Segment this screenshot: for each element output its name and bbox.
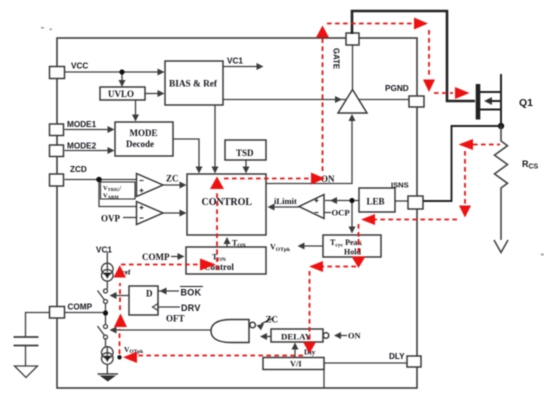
speck artifacts top left [41, 27, 544, 256]
block D flip-flop [129, 286, 158, 315]
op-amp OCP comparator [299, 195, 324, 219]
block Ton Control [186, 247, 266, 274]
wire DRV [158, 306, 180, 308]
wire MODE1 [65, 129, 110, 131]
red path to ISNS [375, 219, 457, 221]
pin DLY [407, 356, 421, 367]
svg-text:COMP: COMP [142, 252, 170, 262]
arrow MODE1 [108, 126, 115, 133]
red arrow left at Rcs [459, 139, 474, 150]
label minus OCP [315, 212, 319, 214]
wire capacitor to ground [25, 346, 27, 366]
wire DELAY to NAND [264, 336, 271, 338]
arrow LEB into OCP [330, 197, 337, 204]
red path to Q1 gate [434, 92, 453, 94]
switch S2 [104, 325, 108, 329]
wire ZCD [65, 179, 137, 181]
wire ON to DELAY bubble [341, 335, 347, 337]
arrow ON into driver base [349, 114, 356, 121]
svg-text:UVLO: UVLO [108, 89, 134, 99]
red arrow right into Q1 [455, 87, 470, 99]
wire OVP out [163, 212, 181, 214]
arrow DFF to S1 [110, 292, 117, 299]
arrow into BIAS uvlo [158, 90, 165, 97]
label minus ZC [140, 180, 144, 182]
red path left below Peak Hold [323, 266, 356, 268]
wire VC1 output [223, 66, 257, 68]
red arrow down below Peak Hold [352, 257, 366, 269]
red arrow left at ISNS path [361, 214, 375, 225]
wire thick GATE trace [352, 11, 475, 101]
wire BIAS to CONTROL [214, 105, 216, 168]
pin VCC [50, 67, 65, 79]
DFF clock wedge [153, 304, 159, 311]
arrow BIAS to CONTROL [212, 167, 219, 174]
red arrow right into Ton Control [200, 259, 216, 271]
block BIAS & Ref [165, 61, 223, 105]
arrow node into Peak Hold [349, 227, 356, 234]
arrow V/I to DELAY [292, 343, 299, 350]
arrow ON into DELAY [334, 332, 341, 339]
svg-text:MODE: MODE [130, 128, 158, 138]
red arrow down at Dly [303, 342, 316, 354]
wire COMP to Ton Control [171, 256, 180, 258]
svg-text:GATE: GATE [332, 48, 341, 69]
svg-text:D: D [146, 289, 153, 299]
pin MODE2 [50, 145, 64, 157]
wire BOK [158, 290, 179, 292]
svg-text:TON: TON [232, 239, 246, 249]
arrow VC1 [257, 63, 264, 70]
svg-text:CONTROL: CONTROL [202, 197, 253, 208]
svg-text:MODE2: MODE2 [67, 142, 97, 151]
arrow ZC into CONTROL [180, 182, 187, 189]
wire source2 to ground [106, 364, 108, 374]
arrow OFT into S2 [110, 327, 117, 334]
red path top across [327, 23, 413, 25]
wire VCC to UVLO [121, 72, 123, 82]
op-amp OVP comparator [137, 202, 164, 225]
wire GATE to driver [352, 45, 354, 89]
red path at Rcs top [473, 144, 500, 146]
node Vpeak red-path junction [117, 355, 121, 359]
ground below source2 [98, 373, 119, 375]
wire Ton Control to CONTROL [226, 241, 228, 247]
red path up left column [119, 329, 121, 354]
pin MODE1 [50, 124, 64, 136]
arrow Ton into CONTROL [224, 237, 231, 244]
svg-text:ZCD: ZCD [70, 165, 87, 174]
svg-text:RCS: RCS [522, 159, 539, 171]
pin ISNS [408, 196, 423, 209]
current source I1 (Vref) [102, 263, 114, 275]
red arrow left below Peak Hold [309, 261, 323, 272]
arrow MODE to CONTROL [196, 167, 203, 174]
arrow into UVLO [119, 80, 126, 87]
wire COMP pin to capacitor [26, 313, 50, 337]
NAND gate mirrored [211, 320, 249, 343]
label minus OVP [140, 217, 144, 219]
svg-text:DRV: DRV [181, 303, 201, 313]
wire LEB to OCP [325, 200, 359, 202]
wire VCC to BIAS [65, 71, 160, 73]
wire sense line to ISNS [424, 126, 502, 201]
arrow TSD to CONTROL [243, 167, 250, 174]
label plus OVP [140, 206, 144, 210]
wire MODE2 [65, 150, 110, 152]
wire BIAS rail to PGND [223, 99, 409, 101]
block TSD [225, 140, 266, 160]
wire source to switch S1 [106, 281, 108, 289]
svg-text:Decode: Decode [126, 139, 154, 149]
switch S1 [104, 289, 108, 293]
wire branch to bottom edge [323, 363, 325, 388]
red path down through Peak Hold [358, 224, 360, 256]
svg-text:VOTpk: VOTpk [270, 243, 291, 253]
wire DFF to S1 [114, 295, 129, 297]
wire S1 to COMP node [105, 304, 107, 314]
svg-text:VCC: VCC [71, 62, 88, 71]
block MODE Decode [115, 122, 173, 156]
pin GATE [346, 33, 359, 45]
red arrow right top [414, 18, 428, 30]
arrow MODE2 [108, 147, 115, 154]
IC boundary box [57, 38, 417, 388]
svg-text:ISNS: ISNS [391, 181, 409, 190]
node LEB-OCP junction [349, 198, 354, 203]
wire ZC to NAND [261, 319, 272, 325]
svg-text:MODE1: MODE1 [67, 120, 97, 129]
wire ON line [266, 119, 352, 184]
red arrow up at GATE [316, 26, 329, 38]
current source I2 (VOTpk) [102, 347, 114, 359]
node Q1 source junction [498, 123, 504, 129]
svg-text:ZC: ZC [166, 174, 179, 184]
svg-text:LEB: LEB [367, 197, 385, 207]
arrow body of Q1 [484, 97, 492, 105]
block Tcyc Peak Hold [323, 235, 381, 257]
svg-text:PGND: PGND [385, 84, 409, 93]
wire ZCD to OVP [99, 180, 136, 207]
svg-text:TSD: TSD [236, 148, 254, 158]
resistor Rcs [495, 126, 508, 240]
svg-text:VARM: VARM [103, 193, 119, 200]
block UVLO [100, 87, 145, 100]
wire ZC out [163, 184, 181, 186]
arrow iLimit into CONTROL [268, 204, 275, 211]
red path down to PGND level [428, 30, 430, 78]
block V/I [263, 358, 324, 370]
arrow into BIAS vcc [158, 69, 165, 76]
node VCC junction [119, 69, 124, 74]
gate driver buffer [338, 90, 367, 114]
ground arrow below Rcs [494, 240, 508, 253]
node ZCD junction [96, 177, 102, 183]
transistor Q1 [476, 74, 501, 126]
wire iLimit [272, 206, 299, 208]
arrow ZC into NAND bubble [257, 324, 265, 331]
label plus OCP [315, 199, 319, 203]
pin COMP [50, 307, 65, 319]
wire LEB to ISNS [395, 200, 408, 202]
wire OVP input stub [123, 217, 136, 219]
label plus ZC [140, 189, 144, 193]
svg-text:VTRIG/: VTRIG/ [103, 185, 121, 192]
svg-text:iLimit: iLimit [274, 196, 297, 206]
pin PGND [409, 96, 424, 107]
block CONTROL [187, 174, 266, 235]
svg-text:VC1: VC1 [96, 246, 112, 255]
wire OFT [114, 329, 211, 331]
svg-text:OVP: OVP [101, 214, 121, 224]
svg-text:COMP: COMP [68, 303, 93, 312]
arrow OVP into CONTROL [180, 210, 187, 217]
red path right into Ton Control [121, 264, 198, 266]
overline for BOK [180, 286, 203, 288]
capacitor C1 [14, 337, 39, 346]
NAND input bubble [250, 322, 256, 328]
block Vtrig/Varm [101, 182, 136, 199]
wire V/I to DLY pin [323, 362, 407, 364]
wire OCP minus stub [324, 212, 331, 214]
svg-text:OCP: OCP [332, 208, 350, 218]
wire MODE Decode to CONTROL [173, 139, 199, 168]
svg-text:ON: ON [348, 332, 361, 341]
svg-text:BIAS & Ref: BIAS & Ref [169, 80, 218, 90]
red path across to ON [224, 178, 310, 180]
red arrow right at ON [311, 173, 325, 185]
wire Peak Hold out [302, 245, 323, 247]
red path Ton up through CONTROL [216, 190, 218, 270]
svg-text:BOK: BOK [181, 288, 202, 298]
svg-text:OFT: OFT [166, 314, 185, 324]
wire UVLO to MODE Decode [135, 100, 137, 116]
wire TSD to CONTROL [245, 160, 247, 168]
node COMP junction [103, 310, 108, 315]
arrow DELAY into NAND [260, 333, 267, 340]
arrow Peak Hold out [298, 243, 305, 250]
wire UVLO to BIAS [145, 93, 159, 95]
ground below capacitor [15, 366, 38, 378]
red path down to Dly [309, 271, 311, 341]
arrow COMP into Ton Control [178, 253, 185, 260]
DELAY output bubble [323, 333, 329, 339]
pin ZCD [50, 174, 64, 186]
red arrow up at Vref [114, 265, 127, 277]
red arrow left at Vpeak [123, 352, 137, 364]
svg-text:V/I: V/I [290, 360, 302, 369]
op-amp ZC comparator [137, 174, 164, 197]
wire S2 to source2 [105, 339, 107, 347]
svg-text:VC1: VC1 [227, 57, 243, 66]
wire node to S2 [105, 313, 107, 325]
red arrow down beside Rcs [459, 206, 471, 218]
svg-text:DLY: DLY [389, 352, 405, 361]
svg-text:ZC: ZC [266, 315, 279, 325]
arrow rail into driver [335, 96, 342, 103]
arrow into MODE Decode top [132, 115, 139, 122]
svg-text:Q1: Q1 [519, 97, 533, 109]
block DELAY [271, 329, 323, 342]
red arrow up at COMP node [114, 314, 127, 328]
red path left to Vpeak [136, 355, 303, 357]
block LEB [359, 188, 395, 212]
svg-text:DELAY: DELAY [281, 332, 312, 342]
wire V/I to DELAY [294, 347, 296, 357]
red arrow down to PGND [423, 80, 435, 93]
wire VC1 to source [106, 252, 108, 264]
red arrow up into CONTROL [210, 177, 224, 190]
wire COMP pin to node [65, 312, 104, 314]
wire node to Peak Hold [351, 201, 353, 229]
arrow BOK into DFF [160, 288, 167, 295]
red path down beside Rcs [464, 151, 466, 204]
red path up beside GATE [322, 37, 324, 171]
